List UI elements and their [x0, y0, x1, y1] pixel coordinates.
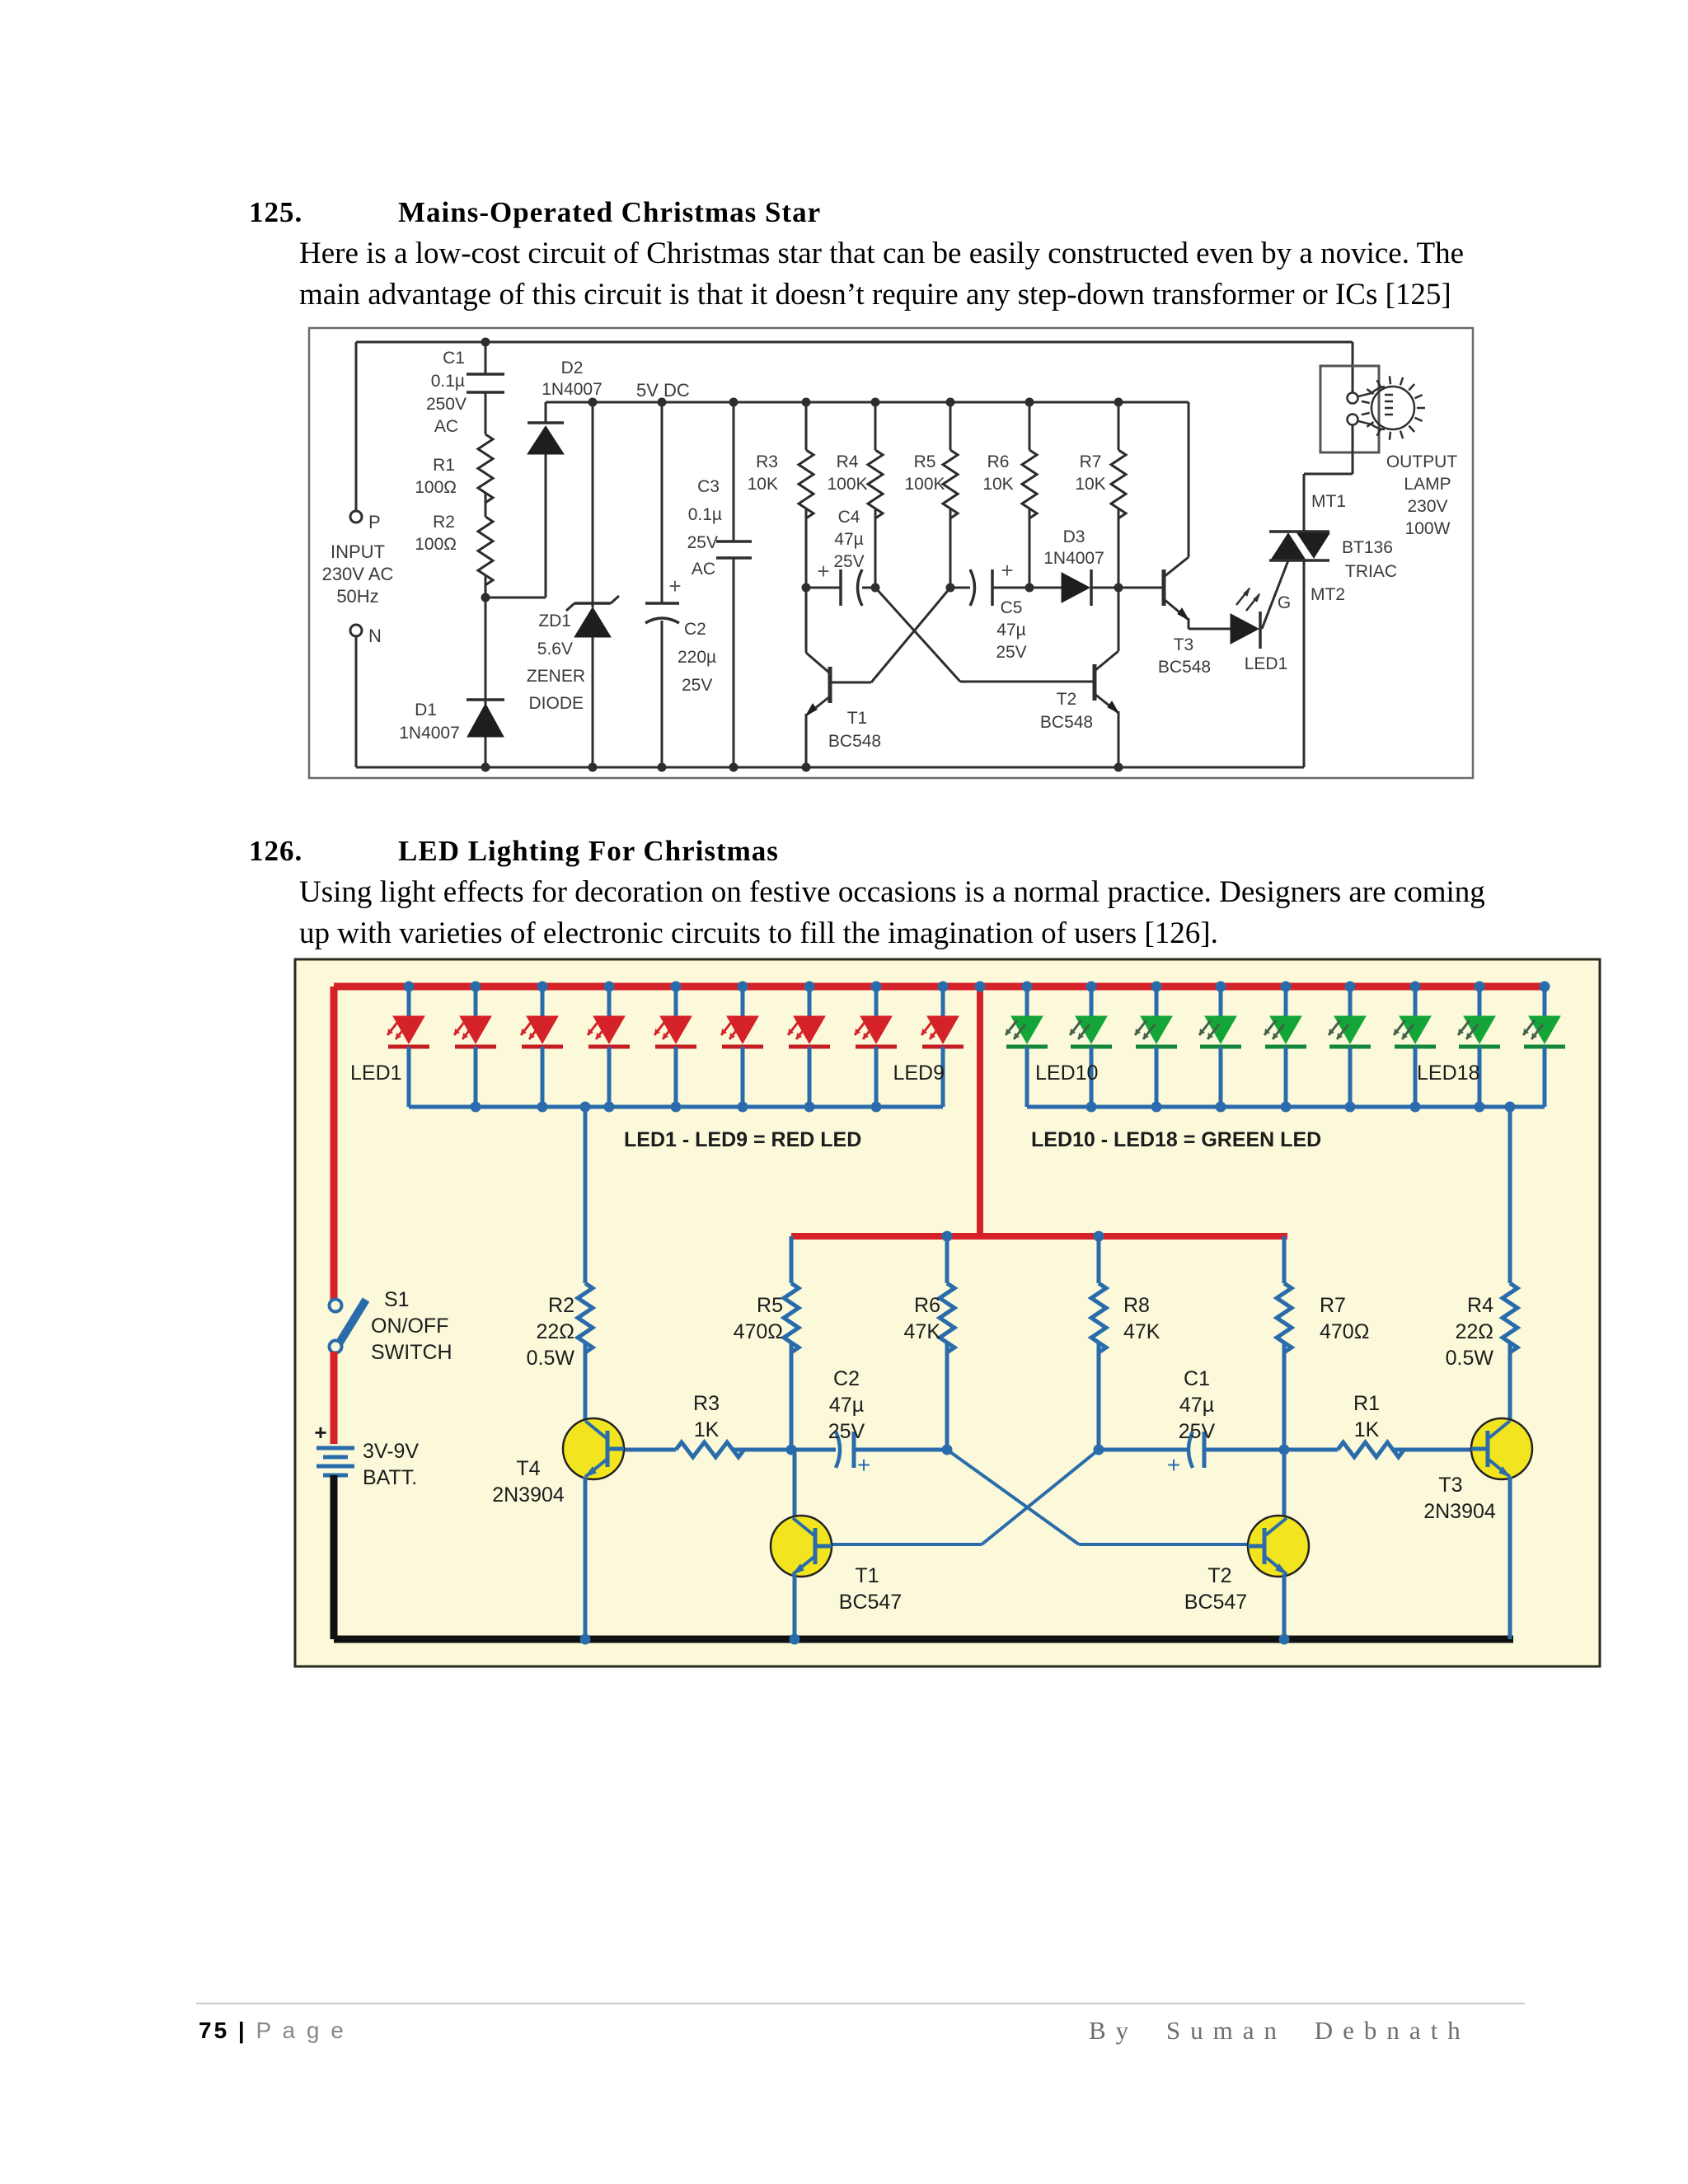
wire: +V red top rail — [334, 983, 1548, 991]
wire: red mid drop — [977, 987, 983, 1236]
transistor T1 — [793, 1450, 797, 1518]
node R2/D1/D2 junction — [481, 593, 490, 602]
resistor R8 — [1094, 1231, 1104, 1242]
junction top rail / C1 — [481, 338, 490, 347]
wire: top rail — [356, 341, 1353, 344]
svg-text:LED18: LED18 — [1417, 1062, 1479, 1085]
capacitor C5 — [950, 587, 970, 589]
section 125 heading — [249, 196, 302, 229]
wire: switch to battery (red) — [331, 1352, 338, 1444]
wire: red middle rail — [791, 1233, 1287, 1240]
capacitor C3 — [729, 398, 738, 407]
LED LED10 (green) — [1025, 987, 1029, 1016]
svg-text:LED1 - LED9 = RED LED: LED1 - LED9 = RED LED — [624, 1128, 861, 1151]
resistor R4 — [871, 398, 880, 407]
wire: P terminal drop — [355, 342, 358, 511]
schematic frame 2 — [295, 959, 1600, 1666]
svg-text:T1: T1 — [855, 1564, 879, 1587]
LED LED11 (green) — [1090, 987, 1094, 1016]
paragraph 125 — [299, 233, 1464, 316]
LED LED18 (green) — [1543, 987, 1547, 1016]
svg-text:LED9: LED9 — [893, 1062, 945, 1085]
wire: cross coupling left — [982, 1450, 1099, 1544]
wire: black bottom rail — [334, 1636, 1513, 1643]
svg-text:47µ: 47µ — [829, 1394, 864, 1417]
capacitor C2 — [836, 1432, 840, 1468]
svg-text:R2: R2 — [548, 1294, 574, 1317]
triac BT136 — [1303, 474, 1306, 532]
svg-text:2N3904: 2N3904 — [1423, 1500, 1496, 1523]
resistor R4 — [1508, 1107, 1512, 1283]
capacitor C1 — [485, 342, 487, 374]
resistor R5 — [946, 398, 955, 407]
LED LED1 (red) — [407, 987, 411, 1016]
svg-text:R1: R1 — [1353, 1392, 1380, 1415]
wire: red left drop to switch — [331, 987, 338, 1302]
svg-text:47µ: 47µ — [1179, 1394, 1214, 1417]
svg-text:LED1: LED1 — [350, 1062, 402, 1085]
svg-text:R3: R3 — [693, 1392, 720, 1415]
LED LED17 (green) — [1478, 987, 1482, 1016]
transistor T1 — [828, 667, 832, 703]
svg-text:S1: S1 — [384, 1288, 410, 1311]
capacitor C1 — [1189, 1432, 1193, 1468]
svg-text:2N3904: 2N3904 — [492, 1483, 565, 1507]
svg-text:0.5W: 0.5W — [1446, 1347, 1494, 1370]
svg-text:C1: C1 — [1184, 1367, 1210, 1390]
wire: bottom rail — [356, 766, 1304, 769]
resistor R2 — [485, 493, 487, 517]
wire: red LED cathode bus — [409, 1105, 943, 1109]
wire R3 to C2 — [733, 1448, 836, 1452]
svg-text:SWITCH: SWITCH — [371, 1341, 452, 1364]
resistor R1 — [485, 392, 487, 434]
LED LED15 (green) — [1348, 987, 1353, 1016]
svg-text:25V: 25V — [1179, 1420, 1216, 1443]
LED LED4 (red) — [607, 987, 612, 1016]
resistor R5 — [790, 1236, 794, 1283]
resistor R6 — [942, 1231, 953, 1242]
LED LED5 (red) — [674, 987, 678, 1016]
paragraph 126 — [299, 872, 1485, 954]
footer right: author — [1089, 2016, 1470, 2046]
wire: N to bottom rail — [355, 636, 358, 767]
svg-text:+: + — [1167, 1452, 1180, 1478]
svg-text:LED10 - LED18 = GREEN LED: LED10 - LED18 = GREEN LED — [1031, 1128, 1321, 1151]
LED LED16 (green) — [1414, 987, 1418, 1016]
svg-text:25V: 25V — [828, 1420, 865, 1443]
svg-text:+: + — [857, 1452, 870, 1478]
LED LED6 (red) — [741, 987, 745, 1016]
svg-text:470Ω: 470Ω — [734, 1320, 783, 1343]
wire C1 to R7 node — [1204, 1448, 1284, 1452]
svg-text:T4: T4 — [516, 1457, 540, 1480]
svg-text:47K: 47K — [1123, 1320, 1160, 1343]
footer rule — [196, 2003, 1525, 2004]
svg-text:1K: 1K — [694, 1418, 720, 1441]
svg-text:22Ω: 22Ω — [1456, 1320, 1494, 1343]
wire: cross coupling right — [947, 1450, 1079, 1544]
LED LED3 (red) — [541, 987, 545, 1016]
output lamp socket — [1352, 342, 1354, 393]
capacitor C2 — [658, 398, 667, 407]
wire to D2 anode — [485, 597, 546, 599]
svg-text:BC547: BC547 — [839, 1591, 902, 1614]
resistor R2 — [584, 1107, 588, 1283]
resistor R3 — [676, 1442, 744, 1457]
schematic frame — [309, 328, 1473, 778]
capacitor C4 — [806, 587, 841, 589]
svg-text:47K: 47K — [904, 1320, 941, 1343]
svg-text:470Ω: 470Ω — [1320, 1320, 1369, 1343]
LED LED7 (red) — [808, 987, 812, 1016]
svg-text:R4: R4 — [1467, 1294, 1493, 1317]
svg-text:+: + — [314, 1420, 326, 1445]
diode D2 — [545, 454, 547, 598]
resistor R6 — [1025, 398, 1034, 407]
wire: T1 base cross-coupling — [830, 682, 871, 684]
LED LED9 (red) — [941, 987, 945, 1016]
svg-text:0.5W: 0.5W — [527, 1347, 575, 1370]
zener diode ZD1 — [588, 398, 598, 407]
svg-text:T2: T2 — [1207, 1564, 1231, 1587]
svg-text:3V-9V: 3V-9V — [363, 1440, 419, 1463]
svg-text:LED10: LED10 — [1035, 1062, 1098, 1085]
circuit schematic 2: LED Lighting For Christmas — [0, 0, 1688, 1731]
LED LED2 (red) — [474, 987, 478, 1016]
resistor R1 — [1284, 1448, 1338, 1452]
terminal N — [350, 625, 362, 636]
svg-text:R6: R6 — [914, 1294, 940, 1317]
svg-text:1K: 1K — [1354, 1418, 1380, 1441]
wire: gate — [1262, 560, 1288, 629]
svg-text:BC547: BC547 — [1184, 1591, 1247, 1614]
footer left: page number — [199, 2018, 346, 2044]
transistor T3 — [1118, 587, 1164, 589]
wire: T2 base cross-coupling — [960, 681, 1095, 683]
svg-text:T3: T3 — [1438, 1474, 1462, 1497]
wire: T4 base row — [624, 1448, 676, 1452]
diode D3 — [1029, 587, 1062, 589]
wire: green LED cathode bus — [1027, 1105, 1545, 1109]
transistor T3 — [1508, 1419, 1512, 1434]
switch S1 — [330, 1300, 342, 1312]
transistor T4 — [584, 1419, 588, 1434]
circuit schematic 1: Mains-Operated Christmas Star — [0, 0, 1688, 824]
wire C2 to R6 node — [854, 1448, 947, 1452]
terminal P — [350, 511, 362, 523]
section 126 heading — [249, 835, 302, 868]
transistor T2 — [1282, 1450, 1287, 1518]
diode D1 — [485, 598, 487, 705]
resistor R7 — [1114, 398, 1123, 407]
svg-text:ON/OFF: ON/OFF — [371, 1315, 448, 1338]
svg-text:R5: R5 — [757, 1294, 783, 1317]
wire: battery to ground rail (black) — [331, 1475, 338, 1639]
svg-text:22Ω: 22Ω — [537, 1320, 575, 1343]
wire: 5V DC rail — [546, 401, 1189, 404]
node row dots — [802, 583, 811, 593]
resistor R7 — [1282, 1236, 1287, 1283]
LED LED8 (red) — [874, 987, 879, 1016]
junction dots on red rail — [404, 982, 415, 992]
resistor R3 — [802, 398, 811, 407]
svg-text:R7: R7 — [1320, 1294, 1346, 1317]
transistor T2 — [1093, 664, 1097, 701]
LED LED13 (green) — [1219, 987, 1223, 1016]
svg-text:C2: C2 — [833, 1367, 860, 1390]
LED LED12 (green) — [1155, 987, 1159, 1016]
wire: lamp to MT1 — [1352, 425, 1354, 474]
LED LED14 (green) — [1284, 987, 1288, 1016]
svg-text:R8: R8 — [1123, 1294, 1150, 1317]
wire: R8 node — [1094, 1445, 1104, 1455]
lamp bulb — [1358, 387, 1385, 396]
LED LED1 — [1189, 628, 1231, 630]
svg-text:BATT.: BATT. — [363, 1466, 417, 1489]
